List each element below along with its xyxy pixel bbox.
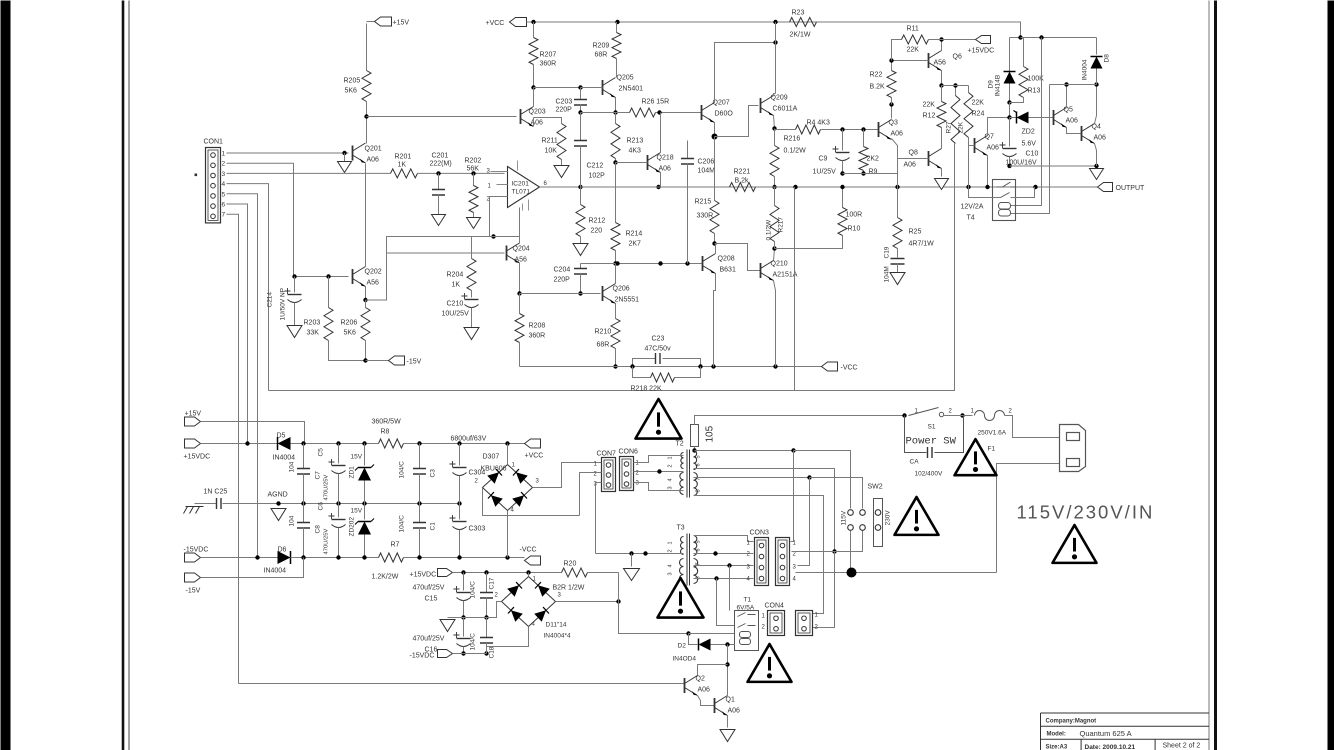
- ground below C214: [287, 326, 302, 338]
- svg-text:3: 3: [668, 572, 674, 575]
- wire Q205 collector rail: [581, 112, 616, 114]
- svg-text:56K: 56K: [467, 166, 480, 173]
- svg-text:22K: 22K: [907, 47, 920, 54]
- svg-text:R221: R221: [734, 169, 751, 176]
- wire R205 to Q201 collector / Q203 base rail: [366, 102, 368, 144]
- svg-text:R204: R204: [447, 272, 464, 279]
- svg-text:3: 3: [222, 171, 226, 178]
- svg-text:IN4OD4: IN4OD4: [673, 656, 697, 663]
- svg-text:D2: D2: [678, 643, 687, 650]
- transistor Q218 A06: [647, 155, 649, 170]
- svg-text:104: 104: [289, 461, 296, 472]
- rail y37 top-right: [1010, 37, 1097, 39]
- ground below R211: [554, 166, 569, 178]
- svg-text:T4: T4: [967, 215, 975, 222]
- wire SW2 to mains big node: [850, 531, 852, 569]
- svg-text:+15VDC: +15VDC: [184, 454, 211, 461]
- svg-text:Q207: Q207: [713, 100, 730, 107]
- svg-text:0.1/2W: 0.1/2W: [784, 148, 807, 155]
- transistor Q206 2N5551: [602, 286, 604, 301]
- feedback bus wire (bottom of amp): [269, 144, 955, 391]
- wire -15V to D6 anode node: [201, 558, 304, 578]
- svg-text:115V: 115V: [841, 510, 848, 525]
- transistor Q203 A06: [520, 109, 522, 124]
- transistor Q7 A06: [974, 138, 976, 153]
- svg-text:T1: T1: [744, 597, 752, 604]
- wire D307 pin4 to -VCC rail: [507, 511, 509, 558]
- svg-text:R210: R210: [595, 329, 612, 336]
- svg-text:C23: C23: [652, 336, 665, 343]
- svg-text:A06: A06: [531, 120, 544, 127]
- svg-text:C9: C9: [819, 156, 828, 163]
- svg-text:C5: C5: [318, 448, 325, 457]
- low-volt rail y572: [453, 572, 562, 574]
- svg-text:CA: CA: [910, 459, 920, 466]
- ground below R202: [467, 218, 481, 229]
- svg-text:Model:: Model:: [1047, 732, 1066, 738]
- svg-text:C201: C201: [432, 153, 449, 160]
- svg-text:A06: A06: [904, 162, 917, 169]
- wire D307 pin3 to CON7 pin1: [533, 463, 602, 488]
- op-amp IC201 TL071: [508, 167, 540, 208]
- svg-text:R216: R216: [784, 136, 801, 143]
- svg-text:ZD202: ZD202: [349, 517, 356, 537]
- svg-text:8: 8: [696, 576, 702, 579]
- wire Q204 emitter to Q206 base: [520, 293, 601, 295]
- svg-text:A06: A06: [1094, 135, 1107, 142]
- svg-text:1K: 1K: [398, 162, 407, 169]
- svg-text:Q201: Q201: [365, 146, 382, 153]
- svg-text:TL071: TL071: [512, 189, 531, 196]
- ground below C210: [464, 328, 479, 340]
- wire Q208 collector to Q210 base: [715, 244, 761, 271]
- svg-text:R12: R12: [923, 113, 936, 120]
- wire SW2 115V feed: [794, 451, 851, 509]
- bridge rectifier D11 IN4004*4: [502, 577, 556, 627]
- svg-text:33K: 33K: [307, 330, 320, 337]
- svg-text:IN4004: IN4004: [273, 455, 296, 462]
- transistor Q4 A06: [1081, 126, 1083, 141]
- svg-text:C3: C3: [430, 469, 437, 478]
- svg-text:R25: R25: [909, 229, 922, 236]
- svg-text:A56: A56: [934, 60, 947, 67]
- svg-text:D11"14: D11"14: [546, 622, 567, 629]
- svg-text:104M: 104M: [884, 266, 891, 282]
- svg-text:A06: A06: [1066, 118, 1079, 125]
- svg-text:R203: R203: [304, 320, 321, 327]
- svg-text:B2R 1/2W: B2R 1/2W: [553, 585, 585, 592]
- svg-text:Q8: Q8: [909, 150, 918, 157]
- transistor Q210 A2151A: [760, 263, 762, 278]
- wire fuse bottom to T2 pin5: [694, 447, 696, 451]
- svg-text:Q210: Q210: [771, 261, 788, 268]
- svg-text:22K: 22K: [958, 121, 965, 133]
- -15VDC rail with D6: [201, 557, 278, 559]
- wire CON7 pin3 down to T3 primary: [596, 483, 602, 554]
- ground near T3: [631, 554, 633, 567]
- svg-text:R26 15R: R26 15R: [642, 99, 670, 106]
- svg-text:Company:Magnot: Company:Magnot: [1046, 719, 1097, 725]
- svg-text:C6: C6: [318, 502, 325, 511]
- svg-text:12V/2A: 12V/2A: [961, 204, 984, 211]
- svg-text:220P: 220P: [554, 277, 571, 284]
- svg-text:F1: F1: [988, 446, 996, 453]
- svg-text:R206: R206: [341, 320, 358, 327]
- power flag -15VDC (psu): [185, 553, 201, 562]
- svg-text:R209: R209: [593, 43, 610, 50]
- svg-text:+VCC: +VCC: [525, 453, 544, 460]
- ground below Q8: [935, 179, 949, 190]
- transistor Q202 A56: [352, 269, 354, 284]
- svg-text:Q7: Q7: [985, 134, 994, 141]
- AC inlet plug: [1060, 425, 1086, 472]
- svg-text:330R: 330R: [697, 213, 714, 220]
- transistor Q209 C6011A: [760, 98, 762, 113]
- svg-text:A06: A06: [987, 145, 1000, 152]
- svg-text:104/C: 104/C: [470, 633, 477, 651]
- svg-text:-15VDC: -15VDC: [184, 547, 209, 554]
- svg-text:CON6: CON6: [619, 449, 639, 456]
- svg-text:R4 4K3: R4 4K3: [807, 120, 830, 127]
- wire CON1 pin1 to Q201 base: [227, 152, 349, 154]
- wire R20 to T1 drive: [619, 573, 689, 634]
- right frame border: [1208, 1, 1210, 750]
- amp bottom rail (-VCC): [520, 366, 822, 368]
- power flag -15V (amp): [366, 360, 389, 362]
- svg-text:C8: C8: [315, 525, 322, 534]
- svg-text:ZD2: ZD2: [1022, 129, 1035, 136]
- svg-text:102P: 102P: [589, 173, 606, 180]
- wire D11 pin2 to aux mid: [487, 602, 502, 618]
- svg-text:Power SW: Power SW: [906, 436, 957, 448]
- transistor Q8 A06: [928, 151, 930, 166]
- svg-text:360R: 360R: [540, 61, 557, 68]
- svg-text:R215: R215: [695, 199, 712, 206]
- svg-text:C303: C303: [469, 526, 486, 533]
- svg-text:1K: 1K: [452, 282, 461, 289]
- svg-text:R208: R208: [529, 323, 546, 330]
- svg-text:CON7: CON7: [597, 451, 617, 458]
- power flag +15VDC (amp): [976, 36, 991, 44]
- svg-text:R205: R205: [344, 78, 361, 85]
- svg-text:1: 1: [668, 456, 674, 459]
- wire D307 pin1 to +VCC rail: [507, 444, 509, 465]
- svg-text:IN4004: IN4004: [1082, 59, 1089, 80]
- top-right rail from R23: [817, 22, 1021, 38]
- wire Q210 emitter to bottom rail: [774, 281, 776, 367]
- svg-text:R212: R212: [589, 218, 606, 225]
- svg-text:R9: R9: [869, 169, 878, 176]
- svg-text:R214: R214: [626, 231, 643, 238]
- svg-text:104/C: 104/C: [399, 515, 406, 533]
- svg-text:+15V: +15V: [185, 411, 202, 418]
- svg-text:104: 104: [289, 515, 296, 526]
- svg-text:C210: C210: [447, 301, 464, 308]
- svg-text:C18: C18: [489, 646, 496, 658]
- wire CON1 pin5 down to PSU -15VDC: [227, 194, 258, 558]
- svg-text:R207: R207: [540, 52, 557, 59]
- power flag +15V (psu): [185, 417, 201, 426]
- svg-text:+VCC: +VCC: [486, 20, 505, 27]
- svg-text:Sheet 2 of 2: Sheet 2 of 2: [1163, 743, 1201, 750]
- svg-text:Q2: Q2: [696, 676, 705, 683]
- svg-text:5: 5: [696, 455, 702, 458]
- svg-text:C10: C10: [1026, 151, 1039, 158]
- wire D11 pin1 to +15VDC rail: [528, 573, 530, 577]
- svg-text:C212: C212: [587, 163, 604, 170]
- svg-text:B631: B631: [720, 267, 736, 274]
- transistor Q204 A56: [506, 246, 508, 261]
- wire Q207 collector loop to R23 rail: [715, 43, 776, 103]
- relay second contact loop: [969, 187, 1001, 198]
- +15VDC low-volt rail flag: [438, 569, 453, 577]
- wire y633 into T1: [689, 633, 735, 635]
- svg-text:Size:A3: Size:A3: [1046, 745, 1068, 750]
- wire D11 pin4 loop to -15VDC: [487, 627, 529, 654]
- wire +15V to D5 cathode node: [201, 422, 305, 444]
- svg-text:105: 105: [705, 425, 716, 442]
- svg-text:IC201: IC201: [512, 181, 530, 188]
- svg-text:4K3: 4K3: [629, 148, 642, 155]
- svg-text:10U/25V: 10U/25V: [442, 311, 470, 318]
- left black bar: [1, 1, 11, 750]
- svg-text:-15V: -15V: [186, 588, 201, 595]
- svg-text:1.2K/2W: 1.2K/2W: [372, 574, 399, 581]
- svg-text:360R/5W: 360R/5W: [372, 419, 402, 426]
- wire D307 pin2 AC loop: [483, 488, 580, 516]
- svg-text:IN4004: IN4004: [264, 568, 287, 575]
- power flag -VCC (psu): [525, 556, 541, 565]
- power flag -VCC (amp): [822, 362, 838, 371]
- svg-text:B.2K: B.2K: [870, 84, 886, 91]
- power flag -15V (psu): [185, 573, 201, 582]
- svg-text:5.6V: 5.6V: [1022, 141, 1037, 148]
- svg-text:-15VDC: -15VDC: [410, 653, 435, 660]
- power flag +VCC (psu): [525, 439, 541, 448]
- svg-text:D8: D8: [1104, 54, 1111, 63]
- svg-text:A56: A56: [515, 257, 528, 264]
- fuse 105 (thermal): [691, 425, 699, 447]
- warning triangle below 115V label: [1053, 525, 1097, 563]
- capacitor CA 102/400V: [905, 416, 964, 453]
- svg-text:1U/50V NP: 1U/50V NP: [280, 288, 287, 321]
- svg-text:SW2: SW2: [868, 484, 883, 491]
- warning triangle near F1: [955, 439, 997, 475]
- transistor Q2 A06: [684, 678, 686, 693]
- svg-text:22K: 22K: [972, 100, 985, 107]
- svg-text:10K: 10K: [545, 148, 558, 155]
- svg-text:Q203: Q203: [529, 109, 546, 116]
- wire CON7 pin2 to D307 AC: [580, 473, 602, 516]
- transistor Q1 A06: [714, 698, 716, 713]
- svg-text:115V/230V/IN: 115V/230V/IN: [1017, 502, 1155, 523]
- svg-text:D307: D307: [483, 454, 500, 461]
- wire CON3 pin2 stub: [792, 551, 835, 553]
- svg-text:Q3: Q3: [889, 120, 898, 127]
- svg-text:470U/25V: 470U/25V: [324, 475, 330, 501]
- IC201 output wire (main mid rail): [540, 186, 581, 188]
- svg-text:104M: 104M: [698, 168, 716, 175]
- svg-text:220P: 220P: [556, 107, 573, 114]
- wire Q5/Q4 collector rail: [1050, 84, 1097, 86]
- mid ground rail of aux supply: [448, 617, 487, 619]
- svg-text:Q5: Q5: [1064, 107, 1073, 114]
- svg-text:6: 6: [696, 548, 702, 551]
- svg-text:C204: C204: [554, 267, 571, 274]
- svg-text:5K6: 5K6: [344, 330, 357, 337]
- wire Q7 emitter to output rail: [987, 166, 989, 188]
- svg-text:C7: C7: [315, 471, 322, 480]
- svg-text:IN4004*4: IN4004*4: [544, 633, 571, 640]
- output flag OUTPUT: [1098, 183, 1113, 192]
- svg-text:A2151A: A2151A: [773, 272, 798, 279]
- wire C9/R9 bottom rail: [843, 173, 898, 175]
- svg-text:1: 1: [222, 151, 226, 158]
- transistor Q6 A56: [928, 53, 930, 68]
- power flag +15V (amp): [366, 24, 368, 71]
- svg-text:6: 6: [222, 202, 226, 209]
- warning triangle near T2: [636, 399, 682, 439]
- svg-text:1U/25V: 1U/25V: [813, 169, 837, 176]
- transistor Q207 D60O: [701, 105, 703, 120]
- ground below Q1: [720, 730, 735, 742]
- svg-text:C15: C15: [425, 596, 438, 603]
- long bus wire to Q2 base: [239, 683, 685, 685]
- svg-text:2K7: 2K7: [629, 241, 642, 248]
- svg-text:Q1: Q1: [726, 697, 735, 704]
- AGND mid rail: [231, 503, 460, 505]
- T2 secondary wires: [695, 450, 794, 452]
- svg-text:6: 6: [696, 463, 702, 466]
- svg-text:R22: R22: [870, 72, 883, 79]
- T3 secondary wires: [694, 536, 754, 542]
- svg-text:CON4: CON4: [765, 603, 785, 610]
- output rail (amp): [775, 186, 1098, 188]
- ground below C19: [890, 273, 905, 285]
- transistor Q208 B631: [702, 256, 704, 271]
- svg-text:3: 3: [668, 486, 674, 489]
- wire D2/T1 node down to Q1: [727, 645, 729, 693]
- svg-text:Q205: Q205: [617, 75, 634, 82]
- svg-text:C203: C203: [556, 99, 573, 106]
- svg-text:222(M): 222(M): [430, 161, 452, 168]
- wires CON6 to T2 primary: [634, 456, 684, 463]
- wire CON1 pin7 down to PSU AGND bus: [227, 214, 239, 683]
- svg-text:4: 4: [668, 478, 674, 481]
- wire Q202 emitter to R204/Q204: [366, 237, 490, 301]
- svg-text:5K6: 5K6: [345, 88, 358, 95]
- svg-text:2K/1W: 2K/1W: [790, 32, 811, 39]
- svg-text:Q204: Q204: [513, 246, 530, 253]
- svg-text:R10: R10: [848, 226, 861, 233]
- svg-text:2: 2: [222, 161, 226, 168]
- svg-text:102/400V: 102/400V: [915, 471, 943, 478]
- svg-text:AGND: AGND: [268, 492, 288, 499]
- transistor Q201 A06: [352, 146, 354, 161]
- svg-text:Q209: Q209: [771, 95, 788, 102]
- svg-text:R211: R211: [542, 138, 558, 145]
- wire fuse to mains switch rail: [695, 416, 905, 425]
- svg-text:5: 5: [696, 540, 702, 543]
- svg-text:D9: D9: [988, 80, 995, 89]
- svg-text:104/C: 104/C: [470, 581, 477, 599]
- wire Q207 emitter to R215: [714, 123, 716, 137]
- svg-text:R8: R8: [381, 429, 390, 436]
- mid drive rail: [581, 263, 702, 265]
- capacitor C31 6800uf/63V (bottom): [459, 504, 461, 520]
- warning triangle near T1: [748, 644, 792, 682]
- svg-text:R23: R23: [792, 10, 805, 17]
- svg-text:A06: A06: [891, 131, 904, 138]
- svg-text:C19: C19: [884, 246, 891, 258]
- transistor Q5 A06: [1053, 110, 1055, 125]
- ground on aux mid rail: [440, 620, 455, 632]
- ground below Q4 emitter rail: [1090, 169, 1104, 180]
- svg-text:A06: A06: [728, 708, 741, 715]
- ground below R212: [573, 244, 588, 256]
- svg-text:4R7/1W: 4R7/1W: [909, 241, 935, 248]
- +15VDC rail with D5: [201, 443, 278, 445]
- wire Q203 emitter / R211 top: [534, 118, 562, 124]
- svg-text:68R: 68R: [595, 52, 608, 59]
- power flag +15VDC (psu): [185, 439, 201, 448]
- wire CON1 pin4 down to feedback bus: [227, 184, 269, 391]
- left frame border: [122, 1, 125, 750]
- relay coil feed wires: [1011, 38, 1042, 206]
- warning triangle near SW2: [895, 497, 939, 535]
- svg-text:470U/25V: 470U/25V: [324, 529, 330, 555]
- svg-text:Q202: Q202: [365, 269, 382, 276]
- svg-text:C214: C214: [267, 292, 274, 308]
- capacitor C15 470uf/25V: [463, 573, 465, 591]
- svg-text:470uf/25V: 470uf/25V: [413, 636, 445, 643]
- svg-text:6800uf/63V: 6800uf/63V: [451, 436, 487, 443]
- wire CON1 pin6 down to PSU +15VDC: [227, 204, 248, 444]
- svg-text:ZD1: ZD1: [349, 466, 356, 479]
- svg-text:8: 8: [696, 489, 702, 492]
- wire T2 secondary to CON3: [791, 451, 794, 542]
- wire CON1 pin3 to Q201 emitter rail: [227, 172, 366, 174]
- wire IC201 pin2 loop: [490, 197, 508, 237]
- svg-text:-VCC: -VCC: [841, 365, 858, 372]
- wire output rail drop at x794: [794, 187, 796, 391]
- ground below C201: [432, 215, 446, 226]
- svg-text:CON1: CON1: [204, 139, 224, 146]
- svg-text:4: 4: [668, 564, 674, 567]
- svg-text:Q6: Q6: [953, 54, 962, 61]
- svg-text:A06: A06: [698, 687, 711, 694]
- svg-text:R13: R13: [1028, 88, 1041, 95]
- svg-text:A06: A06: [367, 157, 380, 164]
- svg-text:C17: C17: [489, 577, 496, 589]
- svg-text:Q4: Q4: [1092, 124, 1101, 131]
- power flag +VCC (amp): [510, 18, 527, 27]
- +VCC top rail: [534, 21, 1021, 23]
- svg-text:1: 1: [668, 541, 674, 544]
- svg-text:Q208: Q208: [718, 256, 735, 263]
- svg-text:T3: T3: [677, 525, 685, 532]
- svg-text:2N5401: 2N5401: [619, 86, 644, 93]
- relay coil: [999, 203, 1011, 210]
- svg-text:250V1.6A: 250V1.6A: [978, 430, 1007, 437]
- svg-text:+15VDC: +15VDC: [410, 572, 437, 579]
- svg-text:A06: A06: [659, 166, 672, 173]
- svg-text:104/C: 104/C: [399, 461, 406, 479]
- svg-text:360R: 360R: [529, 333, 546, 340]
- svg-text:100R: 100R: [846, 212, 863, 219]
- svg-text:R11: R11: [907, 26, 919, 33]
- svg-text:R201: R201: [395, 154, 412, 161]
